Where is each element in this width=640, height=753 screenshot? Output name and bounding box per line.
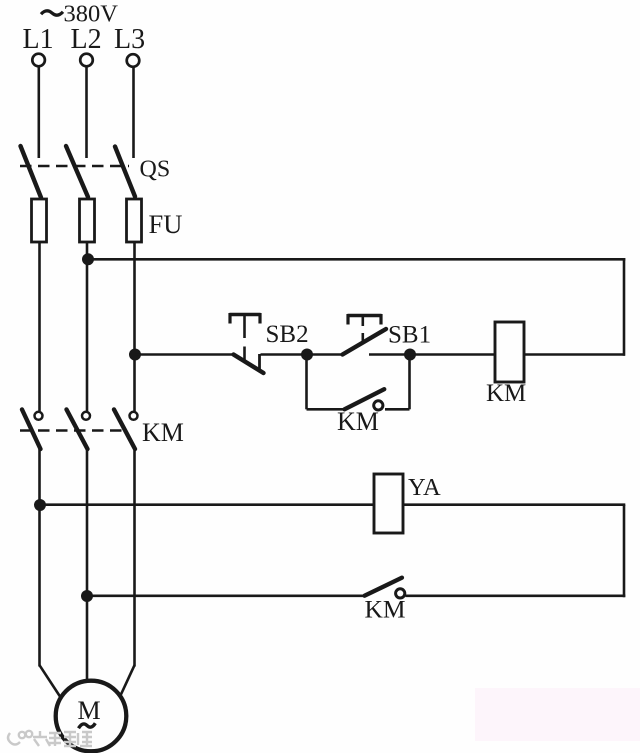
wire bottom row left segment [87,594,365,597]
label motor tilde [79,723,96,728]
contactor KM main pole 2 blade [67,410,88,450]
fuse FU1 [32,199,47,242]
contactor KM main pole 3 loop [130,412,138,420]
switch QS pole 1 blade [21,146,42,198]
node control tap on L3 [129,349,141,361]
contactor KM main pole 3 blade [114,410,135,450]
wire motor lead L1 diagonal [40,665,62,698]
KM auxiliary NO contact blade [345,389,385,409]
svg-text:L2: L2 [71,24,102,55]
svg-text:FU: FU [149,209,183,239]
label ~380V [41,11,63,15]
wire YA row left [40,503,375,506]
svg-text:KM: KM [142,418,184,447]
switch QS pole 2 blade [66,146,88,197]
contactor KM main pole 2 loop [82,412,90,420]
svg-text:SB2: SB2 [266,321,309,348]
node top bus junction on L2 [82,253,94,265]
wire node B to KM coil [410,353,496,356]
motor M circle [56,681,127,752]
switch QS pole 3 blade [115,147,135,197]
node B (right of SB1) [404,349,416,361]
terminal L2 [80,54,93,67]
pink scan artifact region [475,688,640,741]
fuse FU2 [80,199,95,242]
node bottom tap on L2 [81,590,93,602]
svg-text:M: M [77,696,100,725]
KM auxiliary branch left riser [305,355,308,410]
wire L1 fuse to KM contact [38,242,41,411]
wire L3 below KM to motor bend [133,449,136,667]
wire SB2 to node A [261,353,308,356]
KM auxiliary branch bottom left wire [307,408,346,411]
terminal L3 [127,54,140,67]
solenoid coil YA [374,474,403,533]
wire motor lead L3 diagonal [120,665,135,696]
wire top bus [88,258,625,261]
pushbutton SB2 (NC stop) [230,313,264,373]
svg-text:YA: YA [408,474,441,501]
svg-text:QS: QS [140,157,171,183]
wire control row left segment [135,353,236,356]
KM bottom NO contact arc [396,589,405,598]
contactor KM main pole 1 blade [22,410,41,450]
svg-text:KM: KM [337,407,379,436]
node YA tap on L1 [34,499,46,511]
wire KM coil to right riser [523,353,625,356]
svg-text:KM: KM [486,380,526,407]
wire L3 terminal to QS [132,66,135,158]
wire YA row right [403,503,625,506]
wire right riser control loop [623,258,626,356]
KM auxiliary branch bottom right wire [385,408,410,411]
pushbutton SB1 (NO start) [307,314,410,355]
wire L2 fuse down to motor [86,242,89,411]
svg-text:SB1: SB1 [388,322,431,349]
KM bottom NO contact blade [365,578,402,596]
watermark [8,731,92,746]
KM auxiliary branch right riser [408,355,411,410]
contactor KM main pole 1 loop [35,412,43,420]
svg-text:KM: KM [365,595,406,624]
terminal L1 [32,54,45,67]
KM main linkage dashed line [20,429,128,431]
svg-text:L3: L3 [114,24,145,55]
node A (left of SB1) [301,349,313,361]
wire L1 below KM to motor bend [38,449,41,667]
fuse FU3 [127,199,142,242]
wire bottom row right segment [405,594,625,597]
svg-text:L1: L1 [23,24,54,55]
wire L2 terminal to QS [85,66,88,158]
QS linkage dashed line [20,165,129,167]
KM auxiliary contact arc [374,401,383,410]
contactor coil KM [495,322,524,382]
wire right riser YA loop [623,505,626,598]
wire L2 below KM to motor [86,449,89,682]
wire L3 fuse down [133,242,136,411]
wire L1 terminal to QS [37,66,40,158]
